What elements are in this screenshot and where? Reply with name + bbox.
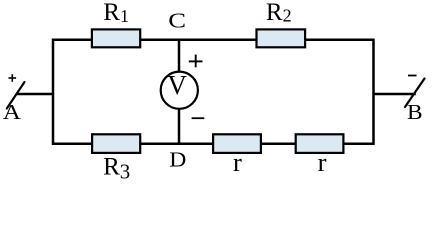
- svg-text:V: V: [167, 70, 187, 100]
- svg-text:A: A: [3, 101, 21, 125]
- svg-text:B: B: [407, 100, 423, 124]
- svg-text:r: r: [233, 147, 242, 177]
- svg-text:D: D: [169, 148, 186, 172]
- svg-text:C: C: [168, 9, 186, 33]
- svg-text:r: r: [318, 147, 327, 177]
